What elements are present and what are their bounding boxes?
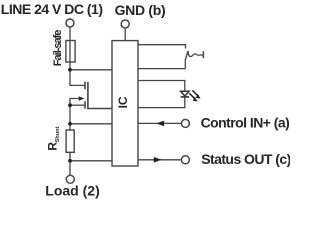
svg-text:Load (2): Load (2): [45, 182, 99, 198]
thermal switch blade: [185, 51, 188, 60]
transistor Q1 gate bar: [84, 82, 86, 90]
wire J4 to IC pin: [70, 160, 112, 162]
terminal Load (2): [66, 175, 74, 183]
wire LED cathode back to IC: [138, 97, 185, 108]
terminal GND (b): [121, 20, 129, 28]
thermal switch end tick: [202, 51, 204, 58]
thermal switch squiggle: [188, 51, 203, 56]
IC box U1: [112, 41, 138, 166]
wire J1 down to gate elbow: [70, 70, 84, 86]
wire LINE terminal to fuse: [69, 28, 71, 70]
wire junction J1 to IC pin: [70, 69, 112, 71]
junction J2: [68, 103, 72, 107]
svg-text:LINE 24 V DC (1): LINE 24 V DC (1): [1, 1, 103, 17]
LED emission arrow 1: [192, 90, 198, 96]
svg-text:Control IN+ (a): Control IN+ (a): [201, 115, 290, 131]
wire J3 to IC pin: [70, 123, 112, 125]
wire IC to thermal switch bottom: [138, 59, 186, 68]
resistor R shunt: [66, 130, 74, 152]
svg-text:GND (b): GND (b): [115, 2, 166, 18]
terminal Status OUT (c): [181, 156, 189, 164]
wire resistor bottom to Load terminal: [69, 152, 71, 175]
wire arrow elbow: [70, 99, 79, 106]
transistor Q1 channel bar: [88, 82, 112, 109]
wire rail J2 to resistor top: [69, 105, 71, 130]
fuse F1 Fail-safe: [66, 41, 75, 63]
Status OUT arrow head: [154, 157, 162, 163]
wire IC to LED anode: [138, 81, 185, 91]
junction J1: [68, 68, 72, 72]
terminal LINE (1): [66, 19, 74, 27]
Control IN+ arrow head: [156, 121, 164, 127]
svg-text:IC: IC: [116, 96, 130, 108]
transistor Q1 arrow head: [79, 96, 85, 101]
LED D1 cathode bar: [181, 96, 189, 98]
label R Shunt: [46, 126, 61, 150]
wire J2 to source plate: [70, 104, 84, 106]
wire IC to thermal switch top: [138, 45, 186, 49]
wire Status OUT line: [138, 159, 181, 161]
terminal Control IN+ (a): [181, 119, 189, 127]
svg-text:Fail-safe: Fail-safe: [52, 30, 64, 67]
transistor Q1 source plate bar: [84, 101, 86, 108]
junction J4: [68, 159, 72, 163]
wire Control IN+ line: [138, 122, 181, 124]
svg-text:Status OUT (c): Status OUT (c): [201, 151, 290, 167]
wire GND terminal to IC top: [124, 29, 126, 41]
LED D1 triangle: [181, 91, 189, 96]
LED emission arrow 2: [189, 93, 195, 99]
svg-text:RShunt: RShunt: [46, 126, 61, 150]
junction J3: [68, 122, 72, 126]
